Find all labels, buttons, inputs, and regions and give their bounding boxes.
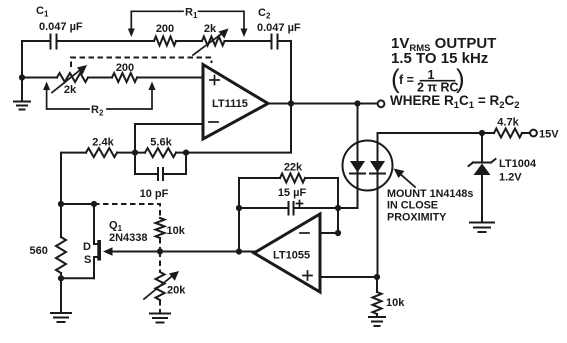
resistor 4.7k — [482, 129, 530, 138]
wire: LT1115 - input — [135, 124, 203, 153]
terminal 15V (open circle) — [530, 130, 537, 137]
wire: 200 to LT1115 + input — [137, 77, 203, 79]
wire: drain row from left column to Q1 drain — [61, 203, 94, 205]
wire: 5.6k right to feedback node — [176, 152, 186, 154]
diode D2 1N4148 (right, bias to + input) — [370, 133, 385, 277]
potentiometer 2k (top, part of R1) — [193, 29, 229, 56]
svg-text:IN CLOSE: IN CLOSE — [387, 200, 438, 212]
wire: 560 to ground, source return — [61, 273, 94, 313]
svg-text:0.047 µF: 0.047 µF — [39, 21, 83, 33]
svg-text:200: 200 — [116, 62, 134, 74]
svg-text:10k: 10k — [386, 297, 405, 309]
dashed wire: 10k bottom to gate node — [159, 238, 161, 252]
annotation arrow to diode circle — [394, 169, 416, 188]
svg-text:D: D — [83, 241, 91, 253]
node: Q1 drain top — [91, 201, 97, 207]
left rail vertical — [21, 41, 23, 101]
svg-text:LT1004: LT1004 — [499, 158, 537, 170]
svg-text:4.7k: 4.7k — [497, 117, 519, 129]
svg-text:): ) — [456, 64, 465, 94]
svg-text:10 pF: 10 pF — [140, 188, 169, 200]
svg-text:1.2V: 1.2V — [499, 172, 522, 184]
svg-text:22k: 22k — [284, 162, 303, 174]
dashed wire: drain row to 10k divider — [94, 204, 160, 218]
wire: LT1055 + input — [320, 276, 377, 278]
svg-text:1.5 TO 15 kHz: 1.5 TO 15 kHz — [391, 50, 488, 67]
wire: 22k row — [239, 177, 338, 179]
ground (below LT1004) — [470, 223, 494, 233]
resistor 200 (row 2, part of R2) — [112, 73, 137, 82]
op-amp U2 LT1055 — [254, 214, 320, 292]
potentiometer 2k (row 2, part of R2) — [52, 65, 88, 93]
R2 bracket with arrows — [43, 82, 155, 110]
resistor 200 (top, part of R1) — [154, 37, 176, 46]
svg-text:2k: 2k — [204, 23, 217, 35]
node: gate line / 10k divider junction — [157, 248, 163, 254]
R1 bracket with arrows — [128, 11, 248, 37]
node: LT1055 output / 22k-15uF branch junction — [236, 248, 242, 254]
wire: gate line from LT1055 output to Q1 gate — [112, 251, 254, 253]
node: output/feedback junction — [288, 100, 294, 106]
wire: 2.4k to 5.6k — [117, 152, 145, 154]
svg-text:MOUNT 1N4148s: MOUNT 1N4148s — [387, 188, 473, 200]
node: - input junction — [335, 230, 341, 236]
svg-text:20k: 20k — [167, 285, 186, 297]
svg-text:5.6k: 5.6k — [150, 137, 172, 149]
svg-text:PROXIMITY: PROXIMITY — [387, 212, 447, 224]
node: 15uF left junction — [236, 205, 242, 211]
circle around matched diodes — [343, 141, 393, 191]
svg-text:LT1115: LT1115 — [212, 98, 248, 110]
svg-text:S: S — [84, 254, 91, 266]
ground (bottom left) — [51, 313, 71, 322]
wire: 2k pot to C2 — [225, 40, 272, 42]
resistor 5.6k — [145, 148, 176, 157]
transistor Q1 2N4338 (JFET) — [94, 204, 122, 278]
svg-text:0.047 µF: 0.047 µF — [257, 22, 301, 34]
resistor 560 — [56, 237, 66, 273]
node: output/diode junction — [354, 100, 360, 106]
wire: 200 to 2k pot (top) — [176, 40, 202, 42]
node: 5.6k/10pF/feedback junction — [183, 150, 189, 156]
svg-text:200: 200 — [156, 23, 174, 35]
wire: top rail left segment from left rail to C1 — [22, 40, 50, 42]
wire: feedback row left of 2.4k — [61, 153, 86, 237]
potentiometer 20k (dashed branch) — [144, 252, 179, 314]
wire: bias rail from D2 top to 4.7k node — [378, 132, 483, 134]
node A: left rail / row-2 junction — [19, 74, 25, 80]
svg-text:f =: f = — [399, 73, 414, 87]
wire: 2k pot to 200 (row 2) — [88, 77, 112, 79]
resistor 10k (divider upper) — [156, 218, 165, 238]
formula f = 1/(2 pi RC) — [391, 64, 465, 95]
svg-text:560: 560 — [30, 245, 48, 257]
op-amp U1 LT1115 — [203, 65, 268, 140]
wire: feedback vertical from output node down to 5.6k — [186, 104, 291, 153]
node: left column / drain row — [58, 201, 64, 207]
node: + input / diode / 10k junction — [374, 274, 380, 280]
svg-text:15V: 15V — [539, 129, 559, 141]
node: 2.4k/5.6k/- input junction — [132, 150, 138, 156]
capacitor 10 pF (parallel with 5.6k) — [135, 153, 186, 180]
zener/reference LT1004 — [469, 133, 496, 222]
svg-text:15 µF: 15 µF — [278, 187, 307, 199]
svg-text:LT1055: LT1055 — [273, 250, 310, 262]
node: source/560 junction — [58, 275, 64, 281]
wire: LT1055 - input — [320, 232, 338, 234]
ground (below 20k) — [150, 314, 170, 323]
svg-text:2N4338: 2N4338 — [109, 232, 148, 244]
node: 15uF right junction — [335, 205, 341, 211]
wire: node A to 2k pot (row 2) — [22, 77, 57, 79]
resistor 22k — [280, 174, 305, 183]
wire: branch vertical up from LT1055 output — [238, 178, 240, 252]
svg-text:2k: 2k — [64, 84, 77, 96]
capacitor C1 — [51, 35, 57, 49]
wire: C1 to 200 resistor — [57, 40, 155, 42]
diode D1 1N4148 (left, output to 15uF) — [338, 104, 365, 209]
wire: LT1115 output to open-circle output terminal — [268, 103, 378, 105]
capacitor C2 — [272, 35, 278, 49]
capacitor 15 uF (electrolytic) — [239, 201, 338, 215]
ground (top left) — [14, 102, 30, 110]
ganged-pot dashed link — [71, 58, 212, 68]
resistor 2.4k — [86, 148, 117, 157]
wire: right branch vertical (22k right to - input) — [337, 178, 339, 233]
node: 4.7k / LT1004 junction — [479, 130, 485, 136]
svg-text:2.4k: 2.4k — [92, 137, 114, 149]
resistor 10k (LT1055 + input to ground) — [373, 277, 382, 317]
wire: C2 to output column corner — [278, 41, 292, 103]
output terminal (open circle) — [378, 100, 385, 107]
svg-text:10k: 10k — [167, 225, 186, 237]
ground (below 10k right) — [369, 317, 385, 326]
